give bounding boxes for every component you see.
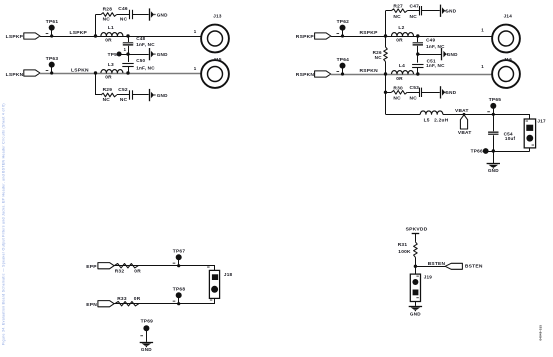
svg-text:R32: R32: [115, 269, 125, 275]
svg-text:R31: R31: [398, 242, 408, 248]
svg-text:GND: GND: [445, 90, 456, 95]
svg-text:VBAT: VBAT: [455, 108, 469, 114]
svg-text:10uf: 10uf: [505, 136, 516, 141]
svg-text:TP64: TP64: [337, 57, 350, 63]
svg-text:TP62: TP62: [337, 19, 350, 25]
svg-text:0R: 0R: [134, 269, 141, 275]
svg-text:EPN: EPN: [86, 302, 97, 308]
svg-text:1nF, NC: 1nF, NC: [426, 44, 445, 49]
svg-text:GND: GND: [157, 52, 168, 57]
svg-text:1: 1: [194, 29, 197, 34]
svg-text:R30: R30: [393, 85, 403, 91]
svg-text:C49: C49: [426, 37, 435, 42]
svg-text:0R: 0R: [396, 76, 403, 82]
svg-text:100K: 100K: [398, 249, 411, 255]
svg-text:1: 1: [481, 64, 484, 69]
svg-text:R29: R29: [103, 87, 113, 93]
svg-text:1nF, NC: 1nF, NC: [426, 63, 445, 68]
svg-text:J14: J14: [504, 14, 513, 19]
svg-text:TP68: TP68: [173, 287, 186, 293]
svg-text:1nF, NC: 1nF, NC: [136, 65, 155, 70]
svg-text:TP58: TP58: [108, 52, 120, 57]
svg-text:J15: J15: [213, 57, 222, 62]
svg-text:1: 1: [124, 47, 127, 52]
svg-text:GND: GND: [447, 52, 458, 57]
svg-text:SPKVDD: SPKVDD: [406, 227, 428, 233]
svg-text:R27: R27: [393, 4, 403, 10]
svg-text:C53: C53: [410, 85, 420, 91]
svg-text:J17: J17: [537, 119, 546, 124]
svg-text:J19: J19: [424, 275, 433, 280]
svg-text:NC: NC: [103, 97, 111, 103]
svg-text:1: 1: [481, 27, 484, 32]
svg-text:TP67: TP67: [173, 249, 186, 255]
svg-text:1: 1: [194, 66, 197, 71]
svg-text:NC: NC: [375, 55, 383, 60]
svg-text:0R: 0R: [134, 296, 141, 302]
svg-text:C46: C46: [118, 6, 128, 12]
svg-text:L5: L5: [424, 117, 430, 123]
svg-text:BSTEN: BSTEN: [428, 261, 446, 267]
svg-text:NC: NC: [393, 14, 401, 20]
svg-text:0R: 0R: [105, 38, 112, 44]
svg-text:0R: 0R: [105, 75, 112, 81]
svg-text:TP66: TP66: [471, 149, 483, 154]
svg-text:LSPKP: LSPKP: [6, 34, 24, 40]
svg-text:GND: GND: [141, 347, 152, 352]
svg-text:J18: J18: [224, 272, 233, 277]
svg-text:2.2uH: 2.2uH: [434, 117, 449, 123]
svg-text:C48: C48: [136, 36, 145, 41]
svg-text:1nF, NC: 1nF, NC: [136, 42, 155, 47]
svg-text:C47: C47: [410, 4, 420, 10]
svg-text:J13: J13: [213, 14, 222, 19]
svg-text:NC: NC: [393, 96, 401, 102]
svg-text:L3: L3: [108, 62, 114, 68]
svg-text:LSPKN: LSPKN: [71, 67, 89, 73]
svg-text:VBAT: VBAT: [458, 130, 472, 136]
svg-text:BSTEN: BSTEN: [465, 263, 483, 269]
svg-text:RSPKN: RSPKN: [296, 72, 315, 78]
svg-text:L1: L1: [108, 25, 114, 31]
svg-text:RSPKP: RSPKP: [296, 34, 315, 40]
svg-text:RSPKP: RSPKP: [360, 30, 379, 36]
svg-text:NC: NC: [410, 14, 418, 20]
svg-text:C52: C52: [118, 87, 128, 93]
svg-text:GND: GND: [488, 168, 499, 173]
svg-text:J16: J16: [504, 57, 513, 62]
svg-text:LSPKN: LSPKN: [6, 72, 24, 78]
svg-text:0R: 0R: [396, 38, 403, 44]
svg-text:NC: NC: [120, 97, 128, 103]
svg-text:NC: NC: [120, 16, 128, 22]
svg-text:TP63: TP63: [46, 56, 59, 62]
svg-text:C50: C50: [136, 58, 145, 63]
svg-text:04949-015: 04949-015: [538, 325, 542, 341]
svg-text:Figure 34. Evaluation Board Sc: Figure 34. Evaluation Board Schematic — …: [2, 103, 6, 345]
svg-text:TP61: TP61: [46, 19, 59, 25]
svg-text:R28: R28: [103, 6, 113, 12]
svg-text:R33: R33: [117, 296, 127, 302]
svg-text:LSPKP: LSPKP: [70, 30, 88, 36]
svg-text:TP69: TP69: [141, 319, 154, 325]
svg-text:EPP: EPP: [86, 264, 97, 270]
svg-text:GND: GND: [157, 12, 168, 17]
svg-text:NC: NC: [410, 96, 418, 102]
svg-text:L4: L4: [399, 63, 405, 69]
svg-text:GND: GND: [410, 311, 421, 316]
svg-text:NC: NC: [103, 16, 111, 22]
svg-text:TP65: TP65: [489, 97, 502, 103]
svg-text:RSPKN: RSPKN: [360, 68, 379, 74]
svg-text:GND: GND: [157, 93, 168, 98]
svg-text:GND: GND: [445, 9, 456, 14]
svg-text:L2: L2: [398, 25, 404, 31]
